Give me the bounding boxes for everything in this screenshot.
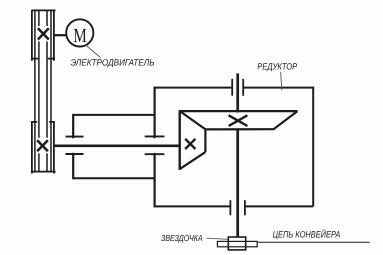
reducer housing top wall (right of shaft) [244, 87, 313, 89]
bearing at reducer left wall, upper bar [145, 135, 165, 137]
belt run line 1 (outer left) [34, 10, 36, 171]
bearing at frame wall, lower bar [66, 153, 84, 155]
leader line to reducer label [281, 72, 282, 91]
leader line to motor label [85, 45, 100, 58]
bevel wheel Z2 bottom edge [206, 128, 275, 130]
reducer housing top wall (left of shaft) [155, 87, 232, 89]
bearing bracket frame bottom rail [73, 177, 154, 179]
bearing bracket frame top rail [73, 114, 154, 116]
bevel pinion Z1 bottom slant edge [180, 152, 206, 169]
belt run line 3 (inner right, broken at bearing X marks) [46, 10, 48, 171]
vertical output shaft (lower segment) [236, 130, 239, 237]
bevel pinion Z1 right edge [204, 129, 206, 152]
pulley P1 top edge [31, 9, 55, 11]
bearing at reducer bottom wall, right bar [244, 200, 246, 215]
sprocket on output shaft [228, 237, 245, 250]
bearing bracket frame wall (upper segment) [72, 114, 74, 138]
reducer housing left wall (upper segment) [154, 87, 156, 139]
svg-text:ЗВЕЗДОЧКА: ЗВЕЗДОЧКА [161, 233, 203, 243]
bearing at reducer top wall, left bar [231, 79, 233, 96]
pulley P2 right wall [53, 122, 55, 174]
vertical output shaft (upper segment) [236, 73, 239, 112]
bevel wheel Z2 left slant edge (shared pitch line) [180, 111, 206, 129]
bearing at frame wall, upper bar [66, 136, 84, 138]
bearing at reducer top wall, right bar [242, 79, 244, 96]
bevel pinion Z1 left edge [178, 110, 180, 170]
pulley P2 left wall [31, 122, 33, 174]
bearing bracket frame wall (lower segment) [72, 153, 74, 180]
reducer housing bottom wall (right of shaft) [246, 205, 313, 207]
reducer housing bottom wall (left of shaft) [155, 205, 230, 207]
conveyor chain bar through sprocket [217, 241, 257, 246]
motor shaft [54, 34, 66, 36]
leader line to sprocket label [207, 238, 228, 239]
bearing X on motor shaft (pulley P1) [38, 28, 49, 39]
pulley P2 bottom edge [31, 171, 55, 173]
pulley P2 top edge (broken at belt band) [31, 121, 55, 123]
pulley P1 bottom edge (broken at belt band) [32, 58, 55, 60]
belt run line 4 (outer right) [50, 10, 52, 171]
horizontal input shaft of reducer [54, 145, 180, 148]
svg-text:РЕДУКТОР: РЕДУКТОР [257, 61, 297, 71]
svg-text:ЭЛЕКТРОДВИГАТЕЛЬ: ЭЛЕКТРОДВИГАТЕЛЬ [71, 57, 155, 67]
reducer housing right wall [312, 87, 314, 207]
pulley P1 right wall [53, 10, 55, 60]
bearing at reducer bottom wall, left bar [229, 200, 231, 215]
reducer housing left wall (lower segment) [154, 153, 156, 208]
svg-text:M: M [73, 25, 87, 47]
bearing X on bevel wheel Z2 [229, 115, 248, 126]
bearing X on bevel pinion Z1 [185, 139, 195, 149]
conveyor chain line [257, 241, 370, 243]
bevel wheel Z2 top edge [180, 110, 298, 112]
bearing X on input shaft (pulley P2) [37, 140, 48, 151]
svg-text:ЦЕПЬ КОНВЕЙЕРА: ЦЕПЬ КОНВЕЙЕРА [273, 229, 341, 240]
belt run line 2 (inner left, broken at bearing X marks) [38, 10, 40, 171]
bevel wheel Z2 right slant edge [274, 111, 298, 129]
electric motor M1 circle [66, 19, 93, 46]
bearing at reducer left wall, lower bar [145, 153, 165, 155]
pulley P1 left wall [31, 10, 33, 60]
